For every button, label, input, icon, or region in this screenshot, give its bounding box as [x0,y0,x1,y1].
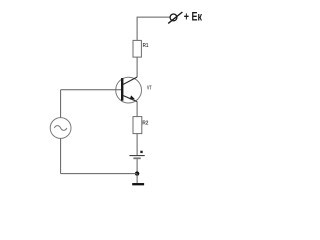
wire bottom rail [61,173,138,175]
terminal +Ek circle [170,14,177,21]
wire left vertical down to source [60,90,62,118]
wire base lead [61,89,121,91]
terminal slash [168,12,182,23]
wire junction to ground [136,174,138,184]
AC source sine [54,126,67,131]
wire source to bottom rail [60,138,62,173]
transistor collector lead [123,77,137,85]
svg-text:VT: VT [147,85,152,91]
resistor R1 [133,40,141,57]
junction node [135,171,139,175]
emitter arrow [130,95,135,99]
ground [132,183,144,185]
battery plus dot [140,151,142,153]
transistor emitter lead [123,96,137,102]
battery long plate [130,155,145,157]
wire R2 to battery [136,134,138,155]
wire emitter to R2 [136,102,138,117]
wire battery to junction [136,159,138,173]
resistor R2 [133,117,142,134]
wire top rail from R1 up and right to terminal [137,17,170,40]
svg-text:R2: R2 [142,121,148,127]
svg-text:R1: R1 [143,43,149,49]
AC source G1 circle [50,118,71,139]
battery short plate [133,157,140,159]
wire R1 to collector [136,57,138,77]
svg-text:+ Ек: + Ек [184,12,202,24]
transistor VT circle [116,77,142,103]
transistor base bar [121,78,123,101]
